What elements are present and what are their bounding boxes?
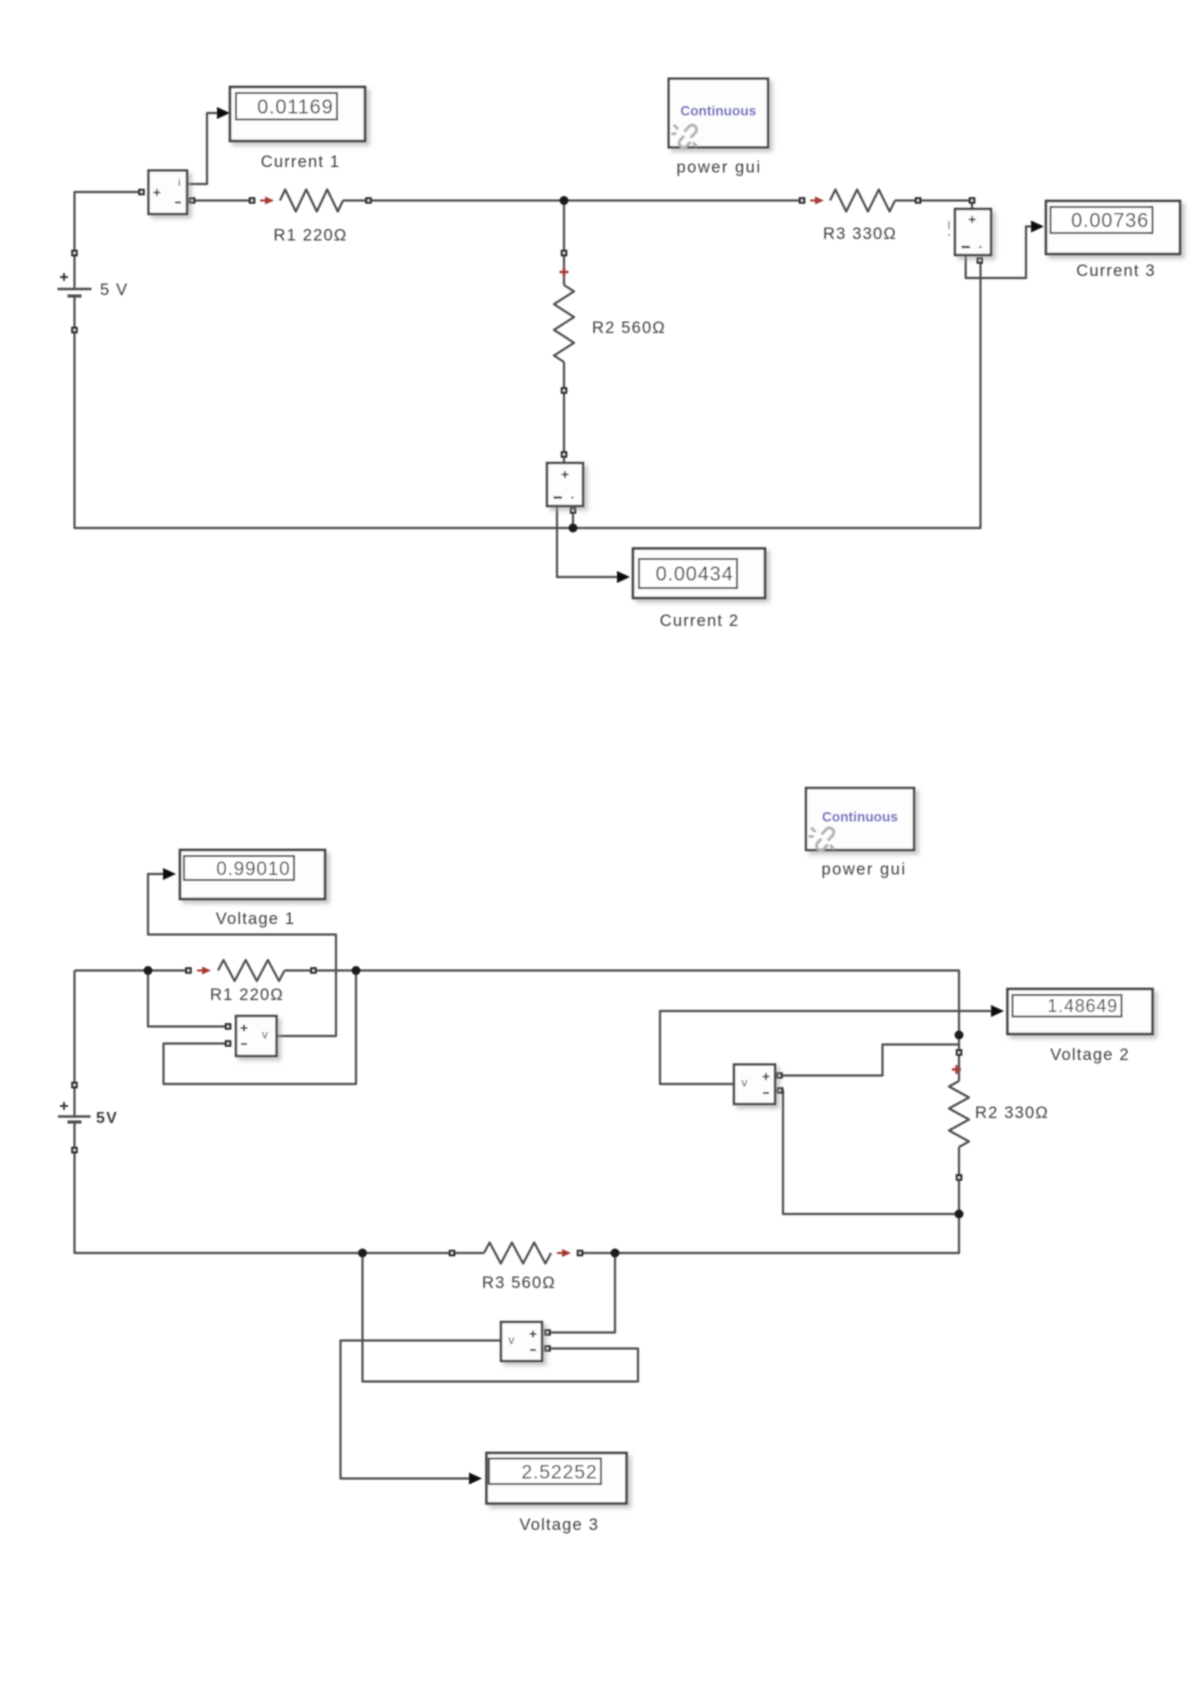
svg-text:R2 330Ω: R2 330Ω bbox=[975, 1104, 1049, 1122]
svg-text:R3 330Ω: R3 330Ω bbox=[823, 225, 897, 243]
svg-text:v: v bbox=[741, 1076, 748, 1090]
svg-text:Continuous: Continuous bbox=[680, 103, 756, 118]
svg-text:0.99010: 0.99010 bbox=[216, 859, 290, 880]
svg-text:Current 2: Current 2 bbox=[660, 612, 740, 630]
svg-text:0.00434: 0.00434 bbox=[656, 564, 734, 586]
svg-text:0.00736: 0.00736 bbox=[1071, 210, 1149, 232]
svg-text:1.48649: 1.48649 bbox=[1047, 996, 1118, 1016]
svg-text:5 V: 5 V bbox=[100, 281, 128, 299]
svg-text:R3 560Ω: R3 560Ω bbox=[482, 1274, 556, 1292]
svg-text:Voltage 3: Voltage 3 bbox=[519, 1516, 599, 1534]
svg-text:Current 3: Current 3 bbox=[1076, 262, 1156, 280]
svg-text:Continuous: Continuous bbox=[822, 810, 898, 825]
svg-text:2.52252: 2.52252 bbox=[521, 1461, 597, 1483]
svg-text:5V: 5V bbox=[96, 1110, 118, 1127]
svg-text:power gui: power gui bbox=[821, 861, 906, 879]
svg-text:power gui: power gui bbox=[676, 159, 761, 177]
svg-text:0.01169: 0.01169 bbox=[257, 96, 333, 118]
svg-text:i: i bbox=[178, 177, 182, 189]
svg-text:v: v bbox=[508, 1333, 515, 1347]
svg-text:R1 220Ω: R1 220Ω bbox=[210, 986, 284, 1004]
svg-text:R1 220Ω: R1 220Ω bbox=[274, 227, 348, 245]
svg-text:Voltage 1: Voltage 1 bbox=[216, 910, 296, 928]
svg-text:Voltage 2: Voltage 2 bbox=[1050, 1046, 1130, 1064]
svg-text:v: v bbox=[262, 1027, 269, 1041]
svg-text:R2 560Ω: R2 560Ω bbox=[592, 319, 666, 337]
svg-text:Current 1: Current 1 bbox=[261, 153, 341, 171]
